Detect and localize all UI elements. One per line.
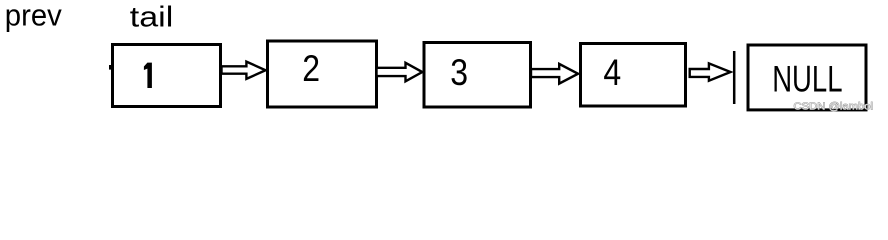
NULL box — [748, 45, 866, 110]
nub on right edge of box 4 — [685, 70, 687, 73]
nub on left edge of box 1 — [109, 65, 112, 70]
node box 4 — [581, 44, 686, 107]
node 1 value — [144, 63, 152, 88]
svg-text:tail: tail — [130, 2, 174, 34]
node box 1 — [113, 45, 221, 107]
svg-text:prev: prev — [5, 0, 62, 32]
arrow 1 (box1 to box2) — [222, 62, 266, 79]
svg-text:CSDN @lambol: CSDN @lambol — [794, 101, 874, 113]
svg-text:NULL: NULL — [772, 58, 842, 100]
svg-text:2: 2 — [302, 48, 320, 89]
node box 3 — [424, 43, 531, 108]
separator line before NULL box — [733, 51, 736, 104]
node box 2 — [268, 41, 377, 107]
arrow 3 (box3 to box4) — [531, 64, 578, 84]
svg-text:4: 4 — [603, 52, 621, 93]
arrow 4 (box4 to NULL) — [690, 63, 731, 80]
svg-text:3: 3 — [450, 52, 468, 93]
arrow 2 (box2 to box3) — [377, 63, 423, 82]
